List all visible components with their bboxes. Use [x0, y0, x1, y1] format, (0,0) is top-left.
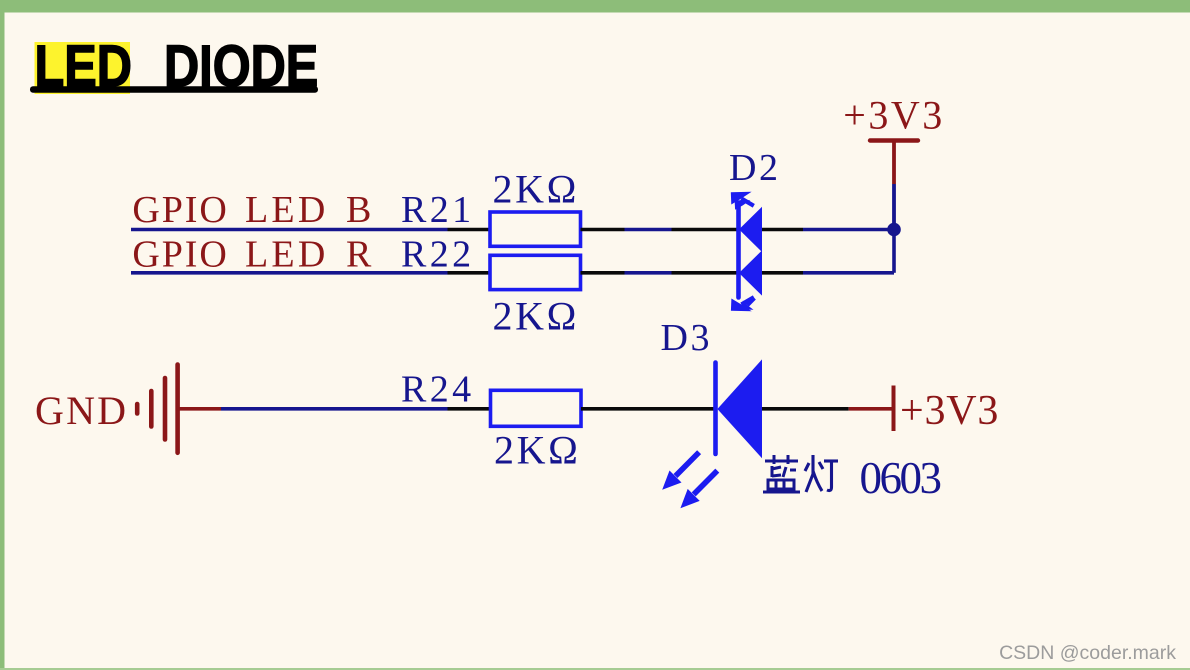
svg-text:2KΩ: 2KΩ: [493, 166, 579, 211]
svg-text:2KΩ: 2KΩ: [493, 293, 579, 338]
LED D2 emission arrows top: [731, 192, 754, 210]
resistor R21 body: [490, 212, 581, 246]
title underline: [30, 86, 318, 92]
wire row2 node segment (navy): [803, 271, 894, 275]
wire row2 D2 to node (black): [762, 271, 803, 275]
frame top border: [0, 0, 1190, 13]
svg-text:CSDN @coder.mark: CSDN @coder.mark: [999, 642, 1176, 664]
svg-text:D2: D2: [729, 147, 781, 189]
power +3V3 top label: [843, 93, 944, 138]
wire +3V3 stub (dark red): [849, 407, 892, 411]
junction node: [887, 223, 901, 237]
power +3V3 top bar symbol: [870, 141, 918, 185]
value 2KΩ of R22: [493, 293, 579, 338]
svg-text:2KΩ: 2KΩ: [494, 427, 580, 472]
designator R22: [401, 233, 475, 275]
wire GND stub (dark red): [178, 407, 221, 411]
svg-text:+3V3: +3V3: [900, 388, 999, 434]
wire GND to R24 (navy): [221, 407, 448, 411]
svg-text:LED: LED: [245, 189, 328, 231]
svg-text:B: B: [346, 189, 371, 231]
value 2KΩ of R24: [494, 427, 580, 472]
wire row1 into D2 (black): [672, 228, 738, 232]
resistor R24 body: [491, 390, 582, 426]
svg-text:R22: R22: [401, 233, 475, 275]
wire D3 to +3V3 (black): [762, 407, 849, 411]
comment 蓝灯 (blue lamp) hanzi LAN: [763, 455, 800, 492]
wire row1 middle (navy segment): [625, 228, 672, 232]
wire row1 R21 to D2 (black): [581, 228, 625, 232]
svg-text:D3: D3: [661, 317, 713, 359]
designator R21: [401, 189, 475, 231]
LED D3 emission arrows: [662, 452, 717, 508]
power +3V3 bottom label: [900, 388, 999, 434]
wire to R24 (black): [448, 407, 492, 411]
wire row2 into D2 (black): [672, 271, 738, 275]
comment 蓝灯 (blue lamp) hanzi DENG: [805, 455, 838, 492]
svg-text:GND: GND: [35, 388, 128, 433]
dual LED D2: [739, 207, 763, 298]
wire row2 middle (navy segment): [625, 271, 672, 275]
wire node to +3V3 (navy vertical): [892, 184, 896, 230]
svg-text:GPIO: GPIO: [132, 233, 228, 275]
wire row1 node segment (navy): [803, 228, 894, 232]
svg-text:R21: R21: [401, 189, 475, 231]
svg-text:R24: R24: [401, 369, 475, 411]
wire R24 to D3 (black): [581, 407, 714, 411]
comment 0603: [860, 453, 941, 503]
svg-text:0603: 0603: [860, 453, 941, 503]
title highlight: [35, 42, 131, 94]
value 2KΩ of R21: [493, 166, 579, 211]
wire net GPIO_LED_R (navy segment): [131, 271, 448, 275]
power +3V3 bottom bar symbol: [892, 386, 896, 432]
resistor R22 body: [490, 255, 581, 289]
watermark CSDN @coder.mark: [999, 642, 1176, 664]
wire row2 to R22 (black): [448, 271, 492, 275]
svg-text:GPIO: GPIO: [132, 189, 228, 231]
ground symbol bars: [137, 365, 177, 453]
svg-text:LED: LED: [245, 233, 328, 275]
frame left border: [0, 13, 5, 669]
wire row2 R22 to D2 (black): [581, 271, 625, 275]
svg-text:R: R: [346, 233, 372, 275]
title text LED_DIODE: [35, 35, 319, 99]
designator D3: [661, 317, 713, 359]
LED D3: [716, 359, 763, 458]
LED D2 emission arrows bottom: [731, 297, 755, 311]
frame bottom border: [0, 668, 1190, 670]
svg-text:+3V3: +3V3: [843, 93, 944, 138]
wire net GPIO_LED_B (navy segment): [131, 228, 448, 232]
wire vertical node link (navy): [892, 230, 896, 273]
wire row1 D2 to node (black): [762, 228, 803, 232]
net label GPIO_LED_R: [132, 233, 372, 275]
designator R24: [401, 369, 475, 411]
designator D2: [729, 147, 781, 189]
ground GND label: [35, 388, 128, 433]
wire row1 to R21 (black): [448, 228, 492, 232]
net label GPIO_LED_B: [132, 189, 371, 231]
